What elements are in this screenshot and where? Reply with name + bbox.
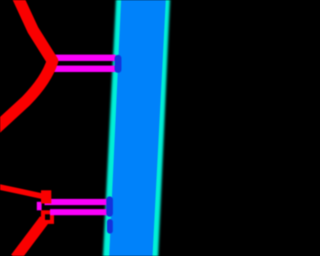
red diagonal road (bottom-left) bbox=[16, 220, 45, 256]
upper connector bar A (magenta) bbox=[53, 55, 116, 61]
upper navy cap marker bbox=[115, 55, 122, 73]
lower navy cap marker 1 bbox=[106, 196, 113, 216]
magenta vertical connector stub bbox=[37, 202, 42, 211]
red filled square node bbox=[41, 190, 51, 203]
lower navy cap marker 2 bbox=[107, 219, 113, 234]
red road Y (upper-left junction) bbox=[0, 0, 53, 130]
lower connector bar C (magenta) bbox=[45, 199, 107, 205]
upper connector bar B (magenta) bbox=[53, 66, 116, 72]
thin red arc road (lower-left) bbox=[0, 187, 46, 198]
blue trunk road fill bbox=[109, 0, 166, 256]
lower connector bar D (magenta) bbox=[50, 209, 107, 215]
red outline square marker bbox=[43, 212, 52, 222]
blue trunk road casing (cyan outer band) bbox=[103, 0, 170, 256]
